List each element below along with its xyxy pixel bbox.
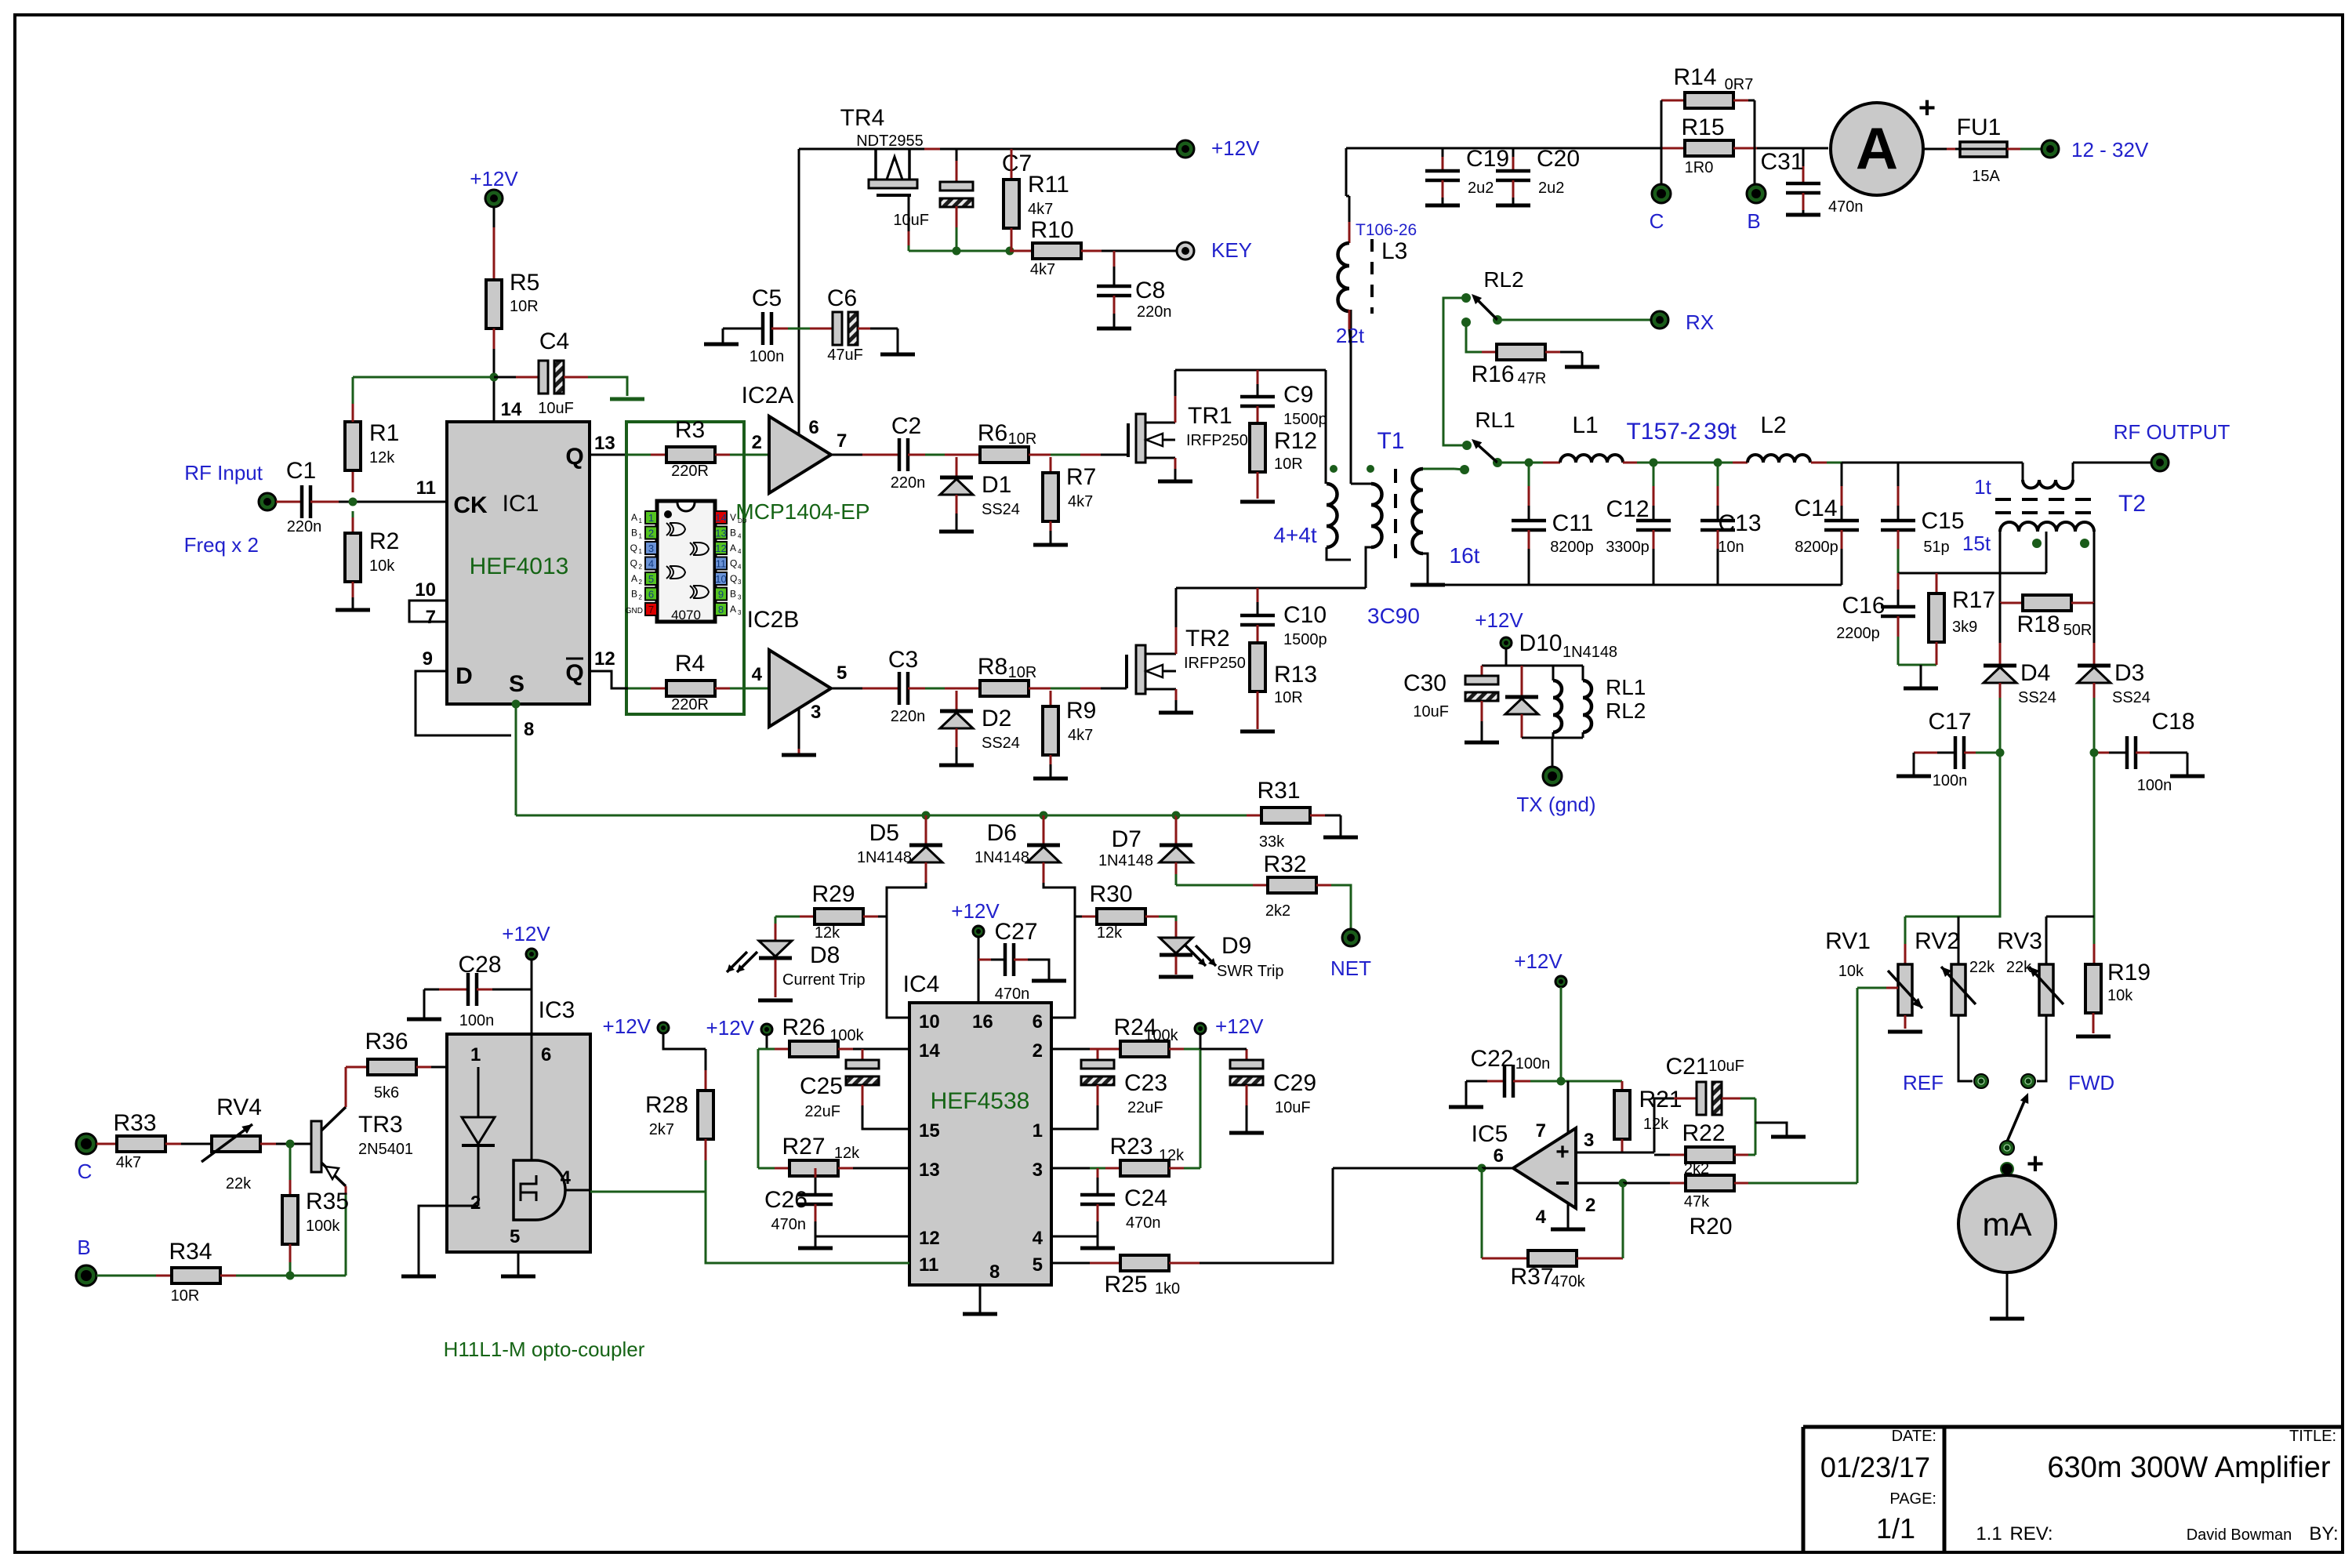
wire to C21 bbox=[1654, 1098, 1674, 1152]
wire RV2 branch bbox=[1958, 916, 1960, 964]
svg-text:100n: 100n bbox=[459, 1012, 495, 1029]
svg-text:1: 1 bbox=[648, 512, 654, 524]
svg-text:16t: 16t bbox=[1450, 543, 1480, 568]
svg-text:2: 2 bbox=[648, 528, 654, 539]
wire IC3 out to pin11 bbox=[706, 1192, 909, 1263]
svg-text:12k: 12k bbox=[1643, 1116, 1669, 1133]
svg-text:470k: 470k bbox=[1551, 1273, 1585, 1290]
capacitor C26 bbox=[815, 1168, 817, 1178]
ground bbox=[1032, 979, 1066, 983]
svg-text:4: 4 bbox=[1033, 1228, 1044, 1249]
capacitor C7 bbox=[956, 149, 958, 161]
capacitor C1 bbox=[300, 485, 304, 518]
svg-text:RX: RX bbox=[1686, 310, 1714, 334]
wire center tap bbox=[2045, 532, 2048, 573]
capacitor C25 bbox=[862, 1049, 864, 1060]
svg-text:4: 4 bbox=[1536, 1207, 1547, 1228]
svg-text:2: 2 bbox=[639, 564, 643, 571]
svg-text:C31: C31 bbox=[1760, 149, 1803, 175]
diode D6 1N4148 bbox=[1043, 815, 1045, 845]
resistor R3 bbox=[628, 454, 651, 456]
svg-text:IC3: IC3 bbox=[539, 997, 575, 1023]
svg-text:1: 1 bbox=[639, 548, 643, 555]
ground bbox=[1033, 777, 1068, 781]
svg-text:+12V: +12V bbox=[1475, 608, 1523, 632]
capacitor C8 bbox=[1113, 251, 1116, 267]
wire main line bbox=[1497, 462, 1529, 464]
ground bbox=[1920, 665, 1922, 687]
ground bbox=[815, 1236, 817, 1247]
resistor R29 bbox=[775, 916, 800, 918]
svg-text:R19: R19 bbox=[2107, 960, 2151, 985]
svg-text:R23: R23 bbox=[1109, 1134, 1152, 1160]
svg-text:100n: 100n bbox=[2137, 777, 2172, 794]
power +12V left of IC4 bbox=[761, 1024, 772, 1035]
svg-text:Freq x 2: Freq x 2 bbox=[184, 533, 259, 557]
svg-text:3: 3 bbox=[1033, 1160, 1043, 1181]
svg-text:6: 6 bbox=[1033, 1011, 1043, 1033]
svg-text:D6: D6 bbox=[987, 820, 1017, 846]
svg-text:2: 2 bbox=[639, 594, 643, 601]
wire bbox=[1898, 664, 1936, 666]
capacitor C9 bbox=[1257, 370, 1259, 384]
wire bbox=[1842, 462, 2023, 464]
wire pin5 ground bbox=[517, 1252, 520, 1275]
svg-text:4k7: 4k7 bbox=[116, 1154, 141, 1171]
ground bbox=[1240, 730, 1275, 734]
svg-text:10R: 10R bbox=[1274, 689, 1303, 706]
svg-text:4070: 4070 bbox=[671, 608, 701, 622]
svg-text:+12V: +12V bbox=[1514, 949, 1563, 973]
svg-text:12: 12 bbox=[594, 648, 615, 670]
wire RV3 branch bbox=[2046, 916, 2094, 918]
svg-text:3: 3 bbox=[738, 594, 742, 601]
svg-text:10R: 10R bbox=[1008, 430, 1037, 448]
resistor R5 bbox=[493, 207, 495, 227]
svg-text:12k: 12k bbox=[1097, 924, 1123, 942]
svg-text:10k: 10k bbox=[1838, 963, 1864, 980]
svg-text:C19: C19 bbox=[1466, 146, 1509, 172]
svg-text:12: 12 bbox=[919, 1228, 940, 1249]
svg-text:RF Input: RF Input bbox=[184, 461, 263, 485]
svg-text:H11L1-M opto-coupler: H11L1-M opto-coupler bbox=[444, 1338, 645, 1361]
svg-text:6: 6 bbox=[1494, 1145, 1504, 1167]
terminal B bbox=[1754, 148, 1756, 184]
svg-text:C28: C28 bbox=[458, 952, 501, 978]
svg-text:47R: 47R bbox=[1518, 370, 1547, 387]
svg-text:+12V: +12V bbox=[1211, 136, 1260, 160]
svg-text:0R7: 0R7 bbox=[1725, 76, 1754, 93]
svg-text:C5: C5 bbox=[752, 285, 782, 311]
svg-text:D1: D1 bbox=[982, 472, 1011, 498]
capacitor C30 bbox=[1481, 666, 1483, 676]
opto LED internal bbox=[477, 1067, 480, 1117]
svg-text:+12V: +12V bbox=[951, 899, 1000, 923]
node bbox=[922, 811, 931, 820]
svg-text:SS24: SS24 bbox=[2018, 689, 2056, 706]
transistor TR2 IRFP250 bbox=[1125, 655, 1128, 688]
svg-text:10R: 10R bbox=[171, 1287, 200, 1305]
power +12V IC3 bbox=[526, 949, 537, 960]
resistor R14 bbox=[1661, 100, 1685, 102]
svg-text:22k: 22k bbox=[226, 1175, 252, 1192]
svg-text:7: 7 bbox=[1536, 1120, 1546, 1142]
capacitor C11 bbox=[1528, 463, 1530, 486]
wire relay top bus bbox=[1482, 665, 1583, 667]
wire IC2A out bbox=[831, 454, 862, 456]
wire bbox=[757, 1049, 760, 1168]
svg-text:12k: 12k bbox=[369, 449, 395, 466]
svg-text:10uF: 10uF bbox=[1413, 703, 1449, 720]
resistor R13 bbox=[1250, 643, 1265, 691]
svg-text:Q: Q bbox=[630, 543, 637, 554]
resistor R20 bbox=[1686, 1175, 1734, 1191]
svg-text:RL2: RL2 bbox=[1606, 699, 1646, 723]
svg-text:R2: R2 bbox=[369, 528, 399, 554]
svg-text:1N4148: 1N4148 bbox=[1563, 644, 1617, 661]
svg-text:R6: R6 bbox=[978, 420, 1007, 446]
node bbox=[953, 247, 961, 256]
svg-text:T106-26: T106-26 bbox=[1356, 221, 1417, 239]
svg-text:10uF: 10uF bbox=[538, 400, 574, 417]
ground bbox=[722, 328, 724, 343]
svg-text:R22: R22 bbox=[1682, 1120, 1725, 1146]
diode D7 1N4148 bbox=[1175, 815, 1178, 845]
svg-text:15: 15 bbox=[919, 1120, 940, 1142]
svg-text:6: 6 bbox=[648, 589, 654, 601]
svg-text:10uF: 10uF bbox=[1275, 1099, 1311, 1116]
svg-text:11: 11 bbox=[716, 558, 727, 570]
svg-text:R10: R10 bbox=[1030, 217, 1073, 243]
svg-text:7: 7 bbox=[426, 607, 436, 628]
resistor R36 bbox=[346, 1066, 352, 1069]
svg-text:4: 4 bbox=[738, 564, 742, 571]
title block bbox=[1803, 1427, 2343, 1552]
svg-text:2N5401: 2N5401 bbox=[358, 1141, 413, 1158]
svg-text:5: 5 bbox=[510, 1226, 520, 1247]
wire lpf ground bus bbox=[1428, 584, 1842, 586]
svg-text:IC2B: IC2B bbox=[747, 607, 800, 633]
svg-text:KEY: KEY bbox=[1211, 238, 1252, 262]
wire IC2B pin3 bbox=[798, 708, 800, 749]
fuse FU1 bbox=[1960, 142, 2007, 157]
svg-text:FU1: FU1 bbox=[1957, 114, 2002, 140]
resistor R16 bbox=[1466, 322, 1482, 352]
svg-text:100k: 100k bbox=[306, 1218, 340, 1235]
meter switch arm bbox=[2007, 1098, 2026, 1142]
terminal RF OUTPUT bbox=[2151, 454, 2169, 471]
svg-text:5: 5 bbox=[1033, 1254, 1043, 1276]
node bbox=[1619, 1179, 1628, 1188]
capacitor C24 bbox=[1097, 1168, 1099, 1178]
capacitor C12 bbox=[1653, 463, 1655, 486]
svg-text:16: 16 bbox=[972, 1011, 993, 1033]
node bbox=[2090, 749, 2099, 757]
svg-text:22uF: 22uF bbox=[1127, 1099, 1163, 1116]
svg-text:4k7: 4k7 bbox=[1068, 493, 1093, 510]
svg-text:IRFP250: IRFP250 bbox=[1186, 432, 1248, 449]
svg-text:C14: C14 bbox=[1794, 495, 1837, 521]
node bbox=[490, 373, 499, 382]
svg-text:C22: C22 bbox=[1470, 1046, 1513, 1072]
ground lpf bus bbox=[1410, 583, 1445, 587]
wire pin2 ground bbox=[419, 1206, 447, 1275]
resistor R32 bbox=[1176, 884, 1253, 887]
ground bbox=[1229, 1131, 1264, 1135]
svg-text:A: A bbox=[1856, 115, 1898, 181]
svg-text:+12V: +12V bbox=[706, 1016, 755, 1040]
svg-text:14: 14 bbox=[501, 399, 522, 420]
ground bbox=[1158, 480, 1192, 484]
ground bbox=[2187, 753, 2189, 775]
ground bbox=[939, 764, 974, 768]
IC4 HEF4538 bbox=[909, 1003, 1051, 1285]
svg-text:8200p: 8200p bbox=[1550, 539, 1594, 556]
wire RV1 wiper feed bbox=[1857, 988, 1859, 1183]
capacitor C14 bbox=[1841, 463, 1843, 486]
svg-text:5: 5 bbox=[837, 662, 847, 684]
svg-text:4k7: 4k7 bbox=[1068, 727, 1093, 744]
resistor R27 bbox=[758, 1167, 775, 1170]
terminal NET bbox=[1342, 929, 1359, 946]
svg-text:10uF: 10uF bbox=[893, 212, 929, 229]
svg-text:C4: C4 bbox=[539, 328, 569, 354]
wire D4 node to RV1 bbox=[1905, 753, 2000, 916]
resistor R34 bbox=[96, 1275, 156, 1277]
wire L3 down bbox=[1348, 310, 1351, 329]
svg-text:1: 1 bbox=[1033, 1120, 1043, 1142]
svg-text:C: C bbox=[78, 1160, 93, 1183]
power +12V IC5 bbox=[1555, 976, 1566, 987]
node phase dot bbox=[2032, 539, 2042, 548]
svg-text:T157-2: T157-2 bbox=[1626, 419, 1700, 445]
svg-text:B: B bbox=[730, 528, 736, 539]
svg-text:8: 8 bbox=[524, 719, 534, 740]
svg-text:3: 3 bbox=[1584, 1130, 1594, 1151]
node bbox=[1996, 749, 2005, 757]
resistor R11 bbox=[1011, 149, 1013, 180]
svg-text:R32: R32 bbox=[1263, 851, 1306, 877]
svg-text:4: 4 bbox=[648, 558, 654, 570]
wire supply to L3 bbox=[1345, 148, 1348, 196]
ground bbox=[1033, 543, 1068, 547]
svg-text:R9: R9 bbox=[1066, 698, 1096, 724]
svg-text:RL1: RL1 bbox=[1475, 408, 1515, 432]
terminal REF bbox=[1974, 1074, 1988, 1088]
svg-text:12 - 32V: 12 - 32V bbox=[2071, 138, 2149, 162]
svg-text:7: 7 bbox=[837, 430, 847, 452]
svg-text:1R0: 1R0 bbox=[1685, 159, 1714, 176]
svg-text:Q: Q bbox=[565, 660, 583, 686]
svg-text:C17: C17 bbox=[1928, 709, 1971, 735]
svg-text:630m 300W Amplifier: 630m 300W Amplifier bbox=[2047, 1451, 2330, 1484]
resistor R33 bbox=[96, 1143, 117, 1145]
svg-text:5: 5 bbox=[648, 573, 654, 585]
svg-text:2: 2 bbox=[1033, 1040, 1043, 1062]
svg-text:11: 11 bbox=[919, 1254, 938, 1276]
svg-text:DATE:: DATE: bbox=[1892, 1428, 1936, 1445]
capacitor C19 bbox=[1442, 148, 1444, 157]
svg-text:12: 12 bbox=[715, 543, 726, 554]
capacitor C13 bbox=[1717, 463, 1719, 486]
node bbox=[1714, 459, 1722, 467]
svg-text:SS24: SS24 bbox=[982, 735, 1020, 752]
svg-text:220R: 220R bbox=[671, 696, 709, 713]
svg-text:BY:: BY: bbox=[2309, 1523, 2338, 1544]
svg-text:13: 13 bbox=[715, 528, 726, 539]
svg-text:R29: R29 bbox=[811, 881, 855, 907]
terminal 12-32V bbox=[2042, 140, 2059, 158]
svg-text:220n: 220n bbox=[1137, 303, 1172, 321]
svg-text:12k: 12k bbox=[834, 1145, 860, 1162]
capacitor C21 bbox=[1697, 1082, 1706, 1115]
wire bbox=[310, 501, 339, 503]
svg-text:C20: C20 bbox=[1537, 146, 1580, 172]
op-amp IC5 bbox=[1513, 1128, 1576, 1208]
svg-text:SS24: SS24 bbox=[2112, 689, 2151, 706]
wire pin8 ground bbox=[979, 1285, 982, 1312]
ground bbox=[1990, 1317, 2024, 1321]
svg-text:D7: D7 bbox=[1112, 826, 1142, 852]
resistor R21 bbox=[1621, 1081, 1624, 1091]
svg-text:13: 13 bbox=[594, 433, 615, 454]
svg-text:C25: C25 bbox=[800, 1073, 843, 1099]
svg-text:100n: 100n bbox=[750, 348, 785, 365]
wire bbox=[771, 328, 788, 330]
ground bbox=[758, 999, 793, 1003]
capacitor C20 bbox=[1512, 148, 1515, 157]
svg-text:L2: L2 bbox=[1760, 412, 1786, 438]
svg-text:15A: 15A bbox=[1972, 168, 2000, 185]
capacitor C6 bbox=[833, 312, 842, 345]
svg-text:51p: 51p bbox=[1923, 539, 1949, 556]
svg-text:C21: C21 bbox=[1665, 1054, 1708, 1080]
power +12V terminal bbox=[1177, 140, 1194, 158]
pins 10-7 stub bbox=[409, 601, 447, 622]
wire T1 secondary to RL1 bbox=[1423, 468, 1454, 470]
svg-text:R5: R5 bbox=[510, 270, 539, 296]
resistor R15 bbox=[1661, 147, 1685, 150]
wire TR2 drain rail bbox=[1176, 587, 1366, 590]
ground bbox=[1159, 975, 1193, 979]
svg-text:+: + bbox=[2027, 1148, 2044, 1181]
svg-text:R18: R18 bbox=[2016, 612, 2060, 637]
svg-text:1k0: 1k0 bbox=[1155, 1280, 1180, 1298]
wire drain rail bbox=[1175, 369, 1326, 372]
svg-text:R4: R4 bbox=[675, 651, 705, 677]
svg-text:2200p: 2200p bbox=[1836, 625, 1880, 642]
wire supply rail right bbox=[1346, 147, 1661, 150]
wire bbox=[2007, 148, 2020, 151]
svg-text:15t: 15t bbox=[1962, 532, 1991, 555]
LED D9 SWR Trip bbox=[1170, 916, 1176, 921]
svg-text:C23: C23 bbox=[1124, 1070, 1167, 1096]
resistor R23 bbox=[1051, 1167, 1090, 1170]
svg-text:Q: Q bbox=[730, 573, 737, 584]
LED D8 Current Trip bbox=[775, 916, 777, 924]
svg-text:B: B bbox=[631, 528, 637, 539]
svg-text:14: 14 bbox=[919, 1040, 940, 1062]
svg-text:mA: mA bbox=[1983, 1206, 2032, 1243]
wire T1 to RL1 aux bbox=[1454, 469, 1465, 470]
node switch bbox=[2000, 1141, 2014, 1155]
resistor R19 bbox=[2085, 964, 2101, 1013]
svg-text:10R: 10R bbox=[510, 298, 539, 315]
IC3 H11L1-M bbox=[447, 1034, 590, 1252]
svg-text:+12V: +12V bbox=[502, 922, 550, 946]
resistor R24 bbox=[1051, 1048, 1090, 1051]
resistor R4 bbox=[628, 688, 651, 690]
ground bbox=[939, 530, 974, 534]
wire Q to R3 bbox=[590, 454, 628, 456]
svg-text:REV:: REV: bbox=[2009, 1523, 2053, 1544]
wire S bus to trip diodes bbox=[516, 815, 1261, 817]
wire RV3 to FWD bbox=[2037, 1015, 2046, 1081]
svg-text:TR1: TR1 bbox=[1188, 403, 1232, 429]
svg-text:220n: 220n bbox=[891, 708, 926, 725]
svg-text:2u2: 2u2 bbox=[1538, 180, 1564, 197]
resistor R2 bbox=[352, 511, 354, 517]
svg-text:L3: L3 bbox=[1381, 238, 1407, 264]
svg-text:R7: R7 bbox=[1066, 464, 1096, 490]
svg-text:10k: 10k bbox=[2107, 987, 2133, 1004]
wire bbox=[908, 688, 925, 690]
svg-text:R35: R35 bbox=[306, 1189, 349, 1214]
inductor L2 bbox=[1748, 455, 1810, 463]
capacitor C27 bbox=[978, 959, 991, 961]
inductor L3 bbox=[1338, 243, 1350, 311]
ground bbox=[1323, 836, 1358, 840]
node bbox=[1172, 811, 1181, 820]
svg-text:+: + bbox=[1555, 1139, 1570, 1165]
svg-text:470n: 470n bbox=[1828, 198, 1864, 216]
wire +12V rail bbox=[799, 148, 876, 151]
svg-text:C2: C2 bbox=[891, 413, 921, 439]
diode D10 1N4148 bbox=[1521, 666, 1523, 697]
svg-text:L1: L1 bbox=[1572, 412, 1598, 438]
svg-text:R30: R30 bbox=[1089, 881, 1132, 907]
ground bbox=[1097, 327, 1131, 331]
svg-text:IC2A: IC2A bbox=[742, 383, 794, 408]
svg-text:3: 3 bbox=[811, 702, 821, 723]
svg-text:R3: R3 bbox=[675, 417, 705, 443]
svg-text:470n: 470n bbox=[995, 985, 1030, 1003]
svg-text:100k: 100k bbox=[829, 1027, 864, 1044]
svg-text:3: 3 bbox=[648, 543, 654, 554]
wire IC2A supply bbox=[798, 149, 800, 436]
op-amp buffer IC2B bbox=[769, 650, 831, 727]
ground bbox=[1913, 753, 1915, 775]
svg-text:9: 9 bbox=[718, 589, 724, 601]
wire RL2 common to RX bbox=[1497, 319, 1650, 321]
svg-text:C9: C9 bbox=[1283, 382, 1313, 408]
resistor R6 bbox=[980, 447, 1029, 463]
svg-text:+: + bbox=[1918, 92, 1936, 125]
svg-text:1500p: 1500p bbox=[1283, 411, 1327, 428]
svg-text:R31: R31 bbox=[1257, 778, 1300, 804]
svg-text:IC5: IC5 bbox=[1472, 1121, 1508, 1147]
svg-text:TR3: TR3 bbox=[358, 1112, 403, 1138]
svg-text:R11: R11 bbox=[1028, 172, 1069, 198]
node bbox=[1525, 459, 1534, 467]
resistor R30 bbox=[1075, 916, 1082, 918]
svg-text:R20: R20 bbox=[1689, 1214, 1732, 1240]
node bbox=[349, 498, 358, 506]
svg-text:R36: R36 bbox=[365, 1029, 408, 1054]
wire RV2 to REF bbox=[1958, 1015, 1973, 1081]
resistor R35 bbox=[289, 1144, 292, 1180]
node phase dot bbox=[2080, 539, 2089, 548]
